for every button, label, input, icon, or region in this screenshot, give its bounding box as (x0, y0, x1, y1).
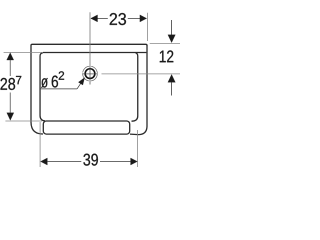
dimension 28.7 label main (1, 78, 16, 90)
leader arrowhead (78, 78, 84, 85)
dimension 39 arrow right (131, 158, 138, 165)
extension line 28.7 bottom (5, 120, 42, 122)
dimension 28.7 label superscript (16, 76, 21, 84)
sink body outer outline left+top (31, 44, 147, 134)
dimension 23 arrow right (140, 15, 147, 22)
dimension 28.7 arrow down (7, 113, 14, 120)
dimension 12 tail below (171, 82, 173, 96)
dimension 39 line left segment (47, 161, 81, 163)
dimension 39 arrow left (41, 158, 48, 165)
extension/center line 23 left (89, 12, 91, 66)
tap hole centerline horizontal (82, 73, 98, 75)
dimension 12 label (160, 50, 174, 62)
dimension 12 arrow up (168, 75, 175, 83)
dimension 23 label (110, 13, 126, 25)
extension line 28.7 top (4, 51, 43, 53)
dimension 28.7 line lower (9, 93, 11, 113)
sink body outer outline right (130, 45, 147, 135)
bottom rail bar (43, 121, 129, 134)
dimension 12 arrow down (168, 35, 175, 43)
extension line 39 right (137, 130, 139, 167)
leader line under label (40, 88, 77, 90)
dimension 39 label (83, 154, 98, 166)
dimension 23 line left segment (91, 17, 108, 19)
extension line 23 right (146, 13, 148, 41)
dimension 12 tail above (171, 20, 173, 35)
tap hole centerline vertical (89, 66, 91, 85)
basin inner right wall (132, 53, 138, 121)
label diameter 6.2 glyph o-slash (41, 78, 48, 88)
sink inner rim edge (43, 52, 146, 54)
label diameter 6.2 superscript (59, 71, 64, 79)
dimension 28.7 line upper (9, 60, 11, 76)
tap hole bold circle (85, 69, 95, 79)
extension line 12 bottom (102, 73, 181, 75)
extension line 12 top (150, 42, 180, 44)
dimension 39 line right segment (100, 161, 131, 163)
dimension 28.7 arrow up (7, 53, 14, 60)
dimension 23 line right segment (128, 17, 147, 19)
leader diagonal (77, 82, 82, 89)
label diameter 6.2 digit (52, 76, 58, 88)
dimension 23 arrow left (91, 15, 98, 22)
tap hole thin circle (83, 66, 98, 81)
basin inner left wall (40, 53, 45, 121)
extension line 39 left (39, 122, 41, 167)
